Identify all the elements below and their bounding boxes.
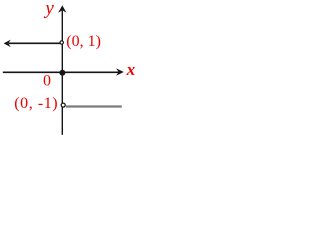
left arrowhead of ray bbox=[4, 40, 11, 48]
svg-text:0: 0 bbox=[43, 73, 51, 90]
svg-text:x: x bbox=[126, 60, 136, 79]
y-axis arrowhead bbox=[58, 5, 66, 12]
filled dot at origin bbox=[59, 70, 65, 76]
background bbox=[0, 0, 136, 140]
open circle at (0,1) bbox=[60, 41, 63, 44]
svg-text:(0, -1): (0, -1) bbox=[14, 95, 58, 112]
x-axis bbox=[3, 71, 119, 73]
y-axis bbox=[61, 11, 63, 135]
x-axis arrowhead bbox=[116, 68, 124, 76]
gray ray y=-1 for x>0 bbox=[66, 105, 122, 107]
svg-text:(0, 1): (0, 1) bbox=[66, 33, 101, 50]
open circle at (0,-1) bbox=[61, 103, 65, 107]
svg-text:y: y bbox=[43, 0, 54, 19]
ray y=1 for x<0 bbox=[9, 42, 61, 44]
